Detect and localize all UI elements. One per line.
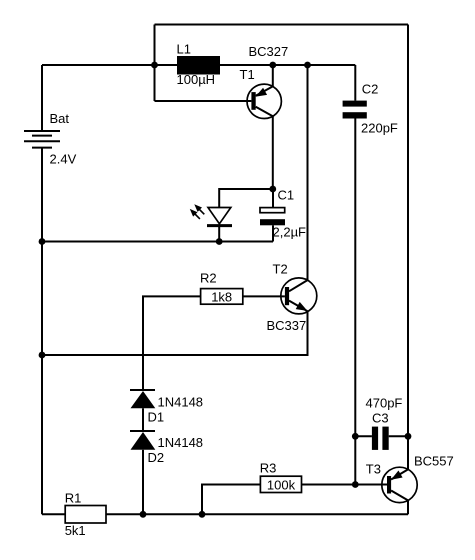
svg-text:470pF: 470pF xyxy=(366,395,403,410)
svg-text:T1: T1 xyxy=(240,67,255,82)
wire D1 to D2 xyxy=(142,408,144,431)
wire R2 left and down to diodes xyxy=(143,296,201,390)
svg-text:D2: D2 xyxy=(148,450,165,465)
diode D2 1N4148 xyxy=(130,431,155,450)
junction (42,241.5) xyxy=(39,238,46,245)
svg-text:5k1: 5k1 xyxy=(65,523,86,538)
transistor T3 BC557 xyxy=(382,467,417,502)
resistor R2 1k8 xyxy=(201,289,243,305)
resistor R1 5k1 xyxy=(65,506,106,524)
svg-text:C2: C2 xyxy=(362,82,379,97)
wire R3 left and down xyxy=(202,485,260,515)
capacitor C1 2,2µF xyxy=(260,189,285,242)
wire LED cathode down xyxy=(218,226,220,242)
LED D xyxy=(207,208,232,226)
junction (142.8,514.3) xyxy=(140,511,147,518)
capacitor C3 470pF xyxy=(355,427,408,450)
wire top rail xyxy=(155,24,409,26)
svg-text:C1: C1 xyxy=(278,188,295,203)
battery Bat 2.4V xyxy=(24,131,60,148)
svg-text:R3: R3 xyxy=(260,460,277,475)
wire right rail xyxy=(407,25,409,470)
svg-text:T3: T3 xyxy=(366,461,381,476)
wire C2 bottom long column xyxy=(354,119,356,485)
svg-text:220pF: 220pF xyxy=(361,121,398,136)
svg-text:R1: R1 xyxy=(65,490,82,505)
wire T3 collector down xyxy=(407,500,409,514)
wire left rail (battery bottom to bottom wire) xyxy=(41,148,43,515)
junction (355.3,484.5) xyxy=(352,481,359,488)
svg-text:100k: 100k xyxy=(267,477,296,492)
LED light arrow 2 xyxy=(190,209,200,219)
wire bottom rail xyxy=(42,513,408,515)
junction (272.8,189) xyxy=(269,186,276,193)
wire T2 collector up xyxy=(307,65,309,280)
wire T3 base row (R3 right to base) xyxy=(302,484,388,486)
transistor T1 BC327 xyxy=(247,84,281,118)
diode D1 1N4148 xyxy=(130,390,155,408)
junction (154.5,65) xyxy=(151,62,158,69)
wire R2 right to T2 base xyxy=(243,295,285,297)
capacitor C2 220pF xyxy=(343,65,367,119)
svg-text:C3: C3 xyxy=(372,410,389,425)
svg-text:BC327: BC327 xyxy=(249,44,289,59)
svg-text:T2: T2 xyxy=(273,262,288,277)
svg-text:1k8: 1k8 xyxy=(211,289,232,304)
inductor L1 xyxy=(177,56,220,75)
wire T1 collector down xyxy=(272,116,274,189)
wire main horizontal (battery top to C2 corner) xyxy=(42,64,355,66)
wire T2 emitter down and left xyxy=(42,311,308,355)
junction (408,436.3) xyxy=(405,433,412,440)
wire T1 emitter up xyxy=(272,65,274,86)
wire bottom of LED/C1 row xyxy=(42,241,273,243)
wire battery top lead xyxy=(41,65,43,131)
transistor T2 BC337 xyxy=(281,278,317,314)
wire LED top (C1 junction to LED) xyxy=(219,189,273,208)
svg-text:100µH: 100µH xyxy=(177,72,216,87)
junction (42,355) xyxy=(39,352,46,359)
svg-text:L1: L1 xyxy=(177,42,191,57)
svg-text:2.4V: 2.4V xyxy=(50,151,77,166)
wire left box vertical xyxy=(154,25,156,102)
svg-text:2,2µF: 2,2µF xyxy=(273,224,307,239)
wire T1 base xyxy=(155,100,252,102)
junction (272.8,65) xyxy=(269,62,276,69)
svg-text:Bat: Bat xyxy=(50,111,70,126)
junction (219.2,241.5) xyxy=(216,238,223,245)
resistor R3 100k xyxy=(260,476,301,492)
svg-text:1N4148: 1N4148 xyxy=(158,394,204,409)
LED light arrow 1 xyxy=(194,204,204,214)
svg-text:1N4148: 1N4148 xyxy=(158,435,204,450)
junction (307.5,65) xyxy=(304,62,311,69)
junction (202,514.3) xyxy=(199,511,206,518)
junction (355.3,436.3) xyxy=(352,433,359,440)
svg-text:R2: R2 xyxy=(200,271,217,286)
wire D2 down to bottom rail xyxy=(142,450,144,515)
svg-text:D1: D1 xyxy=(148,410,165,425)
svg-text:BC557: BC557 xyxy=(414,453,454,468)
svg-text:BC337: BC337 xyxy=(267,318,307,333)
